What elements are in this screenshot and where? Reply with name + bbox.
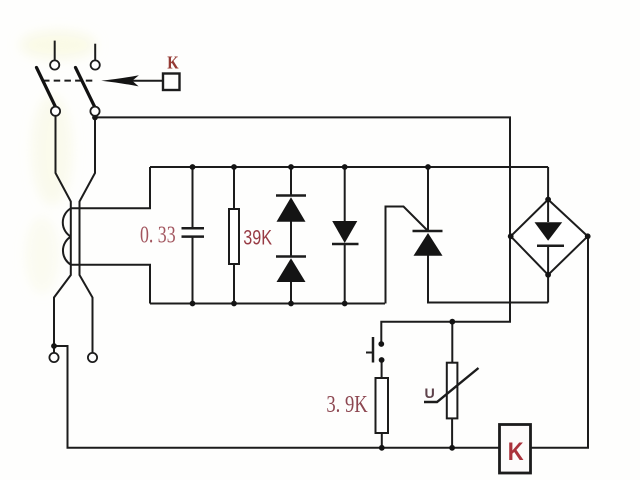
- svg-text:K: K: [167, 52, 178, 72]
- svg-text:39K: 39K: [243, 227, 272, 250]
- svg-text:U: U: [425, 385, 435, 401]
- svg-text:0. 33: 0. 33: [140, 223, 176, 249]
- svg-text:3. 9K: 3. 9K: [326, 392, 368, 418]
- svg-text:K: K: [508, 438, 524, 466]
